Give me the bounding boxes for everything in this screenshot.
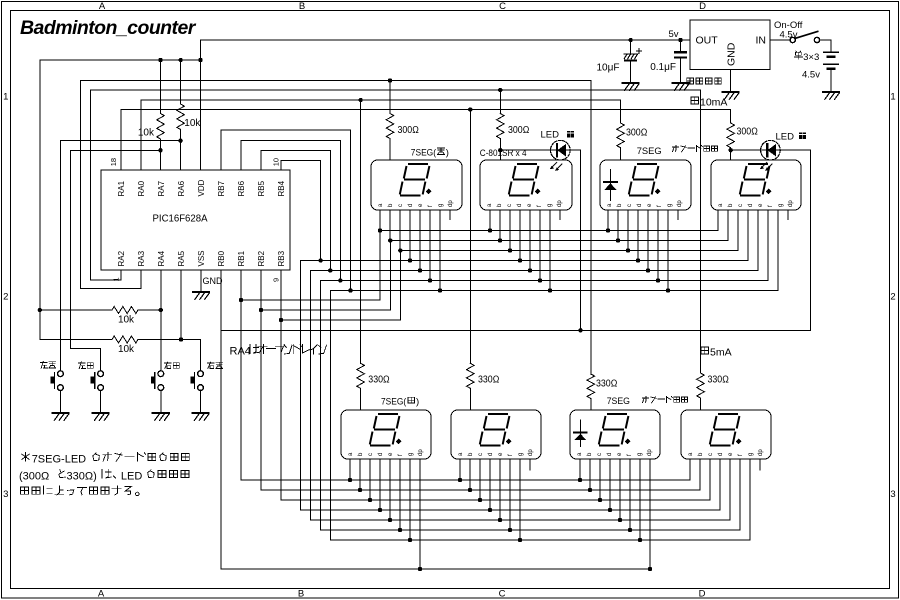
svg-text:dp: dp	[528, 449, 534, 456]
svg-text:LED: LED	[776, 132, 795, 143]
net segment bus a	[378, 210, 718, 233]
svg-text:D: D	[699, 1, 706, 12]
net LED return bus y330	[221, 328, 811, 332]
net segment bus c	[398, 210, 738, 253]
wire rail1 drop to 330ohm R13	[590, 81, 592, 375]
wire LED D1 cathode down to LED bus	[570, 150, 580, 330]
label battery 単3×3	[794, 51, 819, 63]
label SW2 左増	[78, 362, 93, 369]
svg-text:RA7: RA7	[157, 180, 166, 196]
svg-text:): )	[446, 148, 449, 159]
net bottom bus d	[301, 459, 721, 512]
svg-text:1: 1	[3, 92, 8, 103]
display DS2 7SEG red digit2	[480, 160, 572, 210]
wires DS3 pins to buses	[608, 210, 678, 291]
svg-text:A: A	[99, 1, 106, 12]
wire RB4 to segment bus d	[281, 161, 321, 261]
svg-text:PIC16F628A: PIC16F628A	[153, 214, 208, 225]
svg-text:GND: GND	[203, 276, 224, 286]
net bottom bus e	[311, 459, 731, 522]
svg-text:d: d	[607, 453, 613, 456]
display DS4 7SEG red digit4	[711, 160, 801, 210]
ground below regulator	[722, 92, 739, 99]
regulator U1 boost converter box	[690, 20, 770, 70]
svg-text:LED: LED	[121, 470, 142, 482]
switch SW1 left-minus	[51, 371, 64, 413]
label green kanji	[408, 397, 414, 403]
svg-text:330Ω: 330Ω	[368, 375, 390, 386]
svg-text:330Ω): 330Ω)	[67, 470, 97, 482]
svg-text:g: g	[518, 453, 524, 456]
svg-text:d: d	[637, 204, 643, 207]
svg-text:B: B	[299, 1, 305, 12]
note line1 7SEG-LED cathode resistor	[22, 452, 190, 465]
svg-text:5mA: 5mA	[710, 347, 732, 359]
svg-text:7SEG-LED: 7SEG-LED	[32, 453, 86, 465]
label cathode common top カソード共通	[672, 145, 717, 151]
display DS7 7SEG green digit3	[570, 410, 660, 459]
wire VDD pin to 5V rail	[198, 40, 202, 170]
svg-text:7SEG(: 7SEG(	[411, 148, 437, 159]
label SW1 左減	[40, 361, 55, 368]
svg-text:g: g	[637, 453, 643, 456]
svg-text:0.1μF: 0.1μF	[650, 62, 676, 73]
svg-text:18: 18	[109, 158, 118, 166]
svg-text:g: g	[667, 204, 673, 207]
resistor R14 330ohm bottom digit4	[697, 373, 730, 410]
svg-text:RB1: RB1	[237, 250, 246, 266]
svg-text:4.5v: 4.5v	[802, 70, 820, 81]
label approx 10mA 約10mA	[691, 97, 727, 109]
wires DS5 pins to buses	[350, 459, 420, 569]
svg-text:OUT: OUT	[696, 35, 719, 47]
net segment bus b	[388, 210, 728, 243]
wire RB3 branch to bus c	[281, 251, 400, 321]
wire RB1 column	[239, 270, 243, 480]
svg-text:RA2: RA2	[117, 250, 126, 266]
IC U2 PIC16F628A	[101, 170, 290, 270]
svg-text:3: 3	[3, 489, 8, 500]
wire bus f drop	[320, 281, 322, 531]
diode inside DS7	[574, 420, 587, 447]
net bottom bus c	[281, 459, 710, 502]
wire rail3 drop to 300ohm R11	[620, 100, 622, 123]
svg-text:c: c	[627, 204, 633, 207]
switch SW5 On-Off	[790, 31, 820, 42]
wire RB6 to segment bus f	[241, 140, 340, 280]
ground below SW4	[192, 413, 209, 420]
resistor R13 330ohm bottom digit3	[587, 374, 618, 410]
svg-text:RB7: RB7	[217, 180, 226, 196]
wire RB2 column	[259, 270, 263, 490]
wire SW2 column with jog	[71, 150, 101, 370]
wire bus d drop	[300, 261, 302, 511]
net rail1 digit select y80	[80, 78, 590, 82]
svg-text:300Ω: 300Ω	[626, 128, 648, 139]
wire 300ohm R12 node to LED D2	[729, 148, 761, 160]
svg-text:dp: dp	[418, 449, 424, 456]
svg-text:RA0: RA0	[137, 180, 146, 196]
wire 10k to SW4	[200, 340, 202, 371]
wires DS7 pins to buses	[580, 459, 650, 569]
wire rail4 drop to 300ohm R12	[730, 110, 732, 124]
wire RA5 to 10k	[180, 270, 182, 340]
wire rail2 drop to 330ohm R14	[700, 90, 702, 373]
wire RB0 to dp line	[221, 270, 652, 571]
label boost circuit 昇圧回路	[687, 78, 722, 84]
svg-text:10k: 10k	[138, 127, 155, 138]
svg-text:): )	[416, 397, 419, 408]
label cathode common bottom カソード共通	[642, 396, 687, 402]
ground below SW3	[153, 413, 170, 420]
diode inside DS3	[604, 169, 617, 200]
ground below C2	[672, 83, 689, 90]
svg-text:300Ω: 300Ω	[398, 125, 420, 136]
resistor R10 300ohm digit2 red	[497, 90, 530, 160]
label SW4 右減	[207, 362, 222, 369]
svg-text:330Ω: 330Ω	[596, 379, 618, 390]
svg-text:D: D	[699, 589, 706, 600]
wire battery to ground	[830, 70, 832, 92]
svg-text:c: c	[597, 453, 603, 456]
svg-text:9: 9	[272, 278, 281, 282]
net segment bus e	[311, 210, 759, 273]
display DS3 7SEG red digit3	[600, 160, 691, 210]
svg-text:VSS: VSS	[197, 250, 206, 266]
resistor R4 10k horizontal RA5	[40, 336, 201, 355]
wire bus e drop	[310, 271, 312, 521]
svg-text:dp: dp	[647, 449, 653, 456]
svg-text:g: g	[778, 204, 784, 207]
svg-text:RA1: RA1	[117, 180, 126, 196]
svg-text:RA6: RA6	[177, 180, 186, 196]
label SW3 右増	[164, 362, 179, 369]
svg-text:g: g	[408, 453, 414, 456]
svg-text:g: g	[748, 453, 754, 456]
wire bus g drop	[329, 291, 331, 541]
LED D2 yellow indicator right	[760, 140, 780, 170]
switch SW4 right-minus	[191, 371, 204, 413]
wire RB1 branch to bus a	[241, 231, 380, 301]
wire RA3 around left to rail1	[80, 81, 141, 289]
wire 5V drop x40 to pullup resistors	[38, 60, 42, 340]
svg-text:1: 1	[890, 92, 895, 103]
svg-text:5v: 5v	[668, 29, 678, 40]
svg-text:dp: dp	[677, 200, 683, 207]
note RA4 is open drain	[230, 344, 327, 357]
resistor R9 300ohm digit1 red	[386, 81, 419, 161]
ground below VSS	[193, 292, 210, 299]
svg-text:A: A	[98, 589, 105, 600]
wire VSS to ground	[200, 270, 202, 292]
svg-text:2: 2	[890, 292, 895, 303]
resistor R11 300ohm digit3 red	[617, 123, 648, 160]
net bottom bus f	[321, 459, 741, 532]
svg-text:7SEG(: 7SEG(	[381, 397, 407, 408]
svg-text:3: 3	[890, 489, 895, 500]
svg-text:RB5: RB5	[257, 180, 266, 196]
ground below battery	[823, 92, 840, 99]
svg-text:d: d	[408, 204, 414, 207]
svg-text:RA5: RA5	[177, 250, 186, 266]
svg-text:3×3: 3×3	[803, 52, 819, 63]
svg-text:d: d	[378, 453, 384, 456]
svg-text:RA4: RA4	[157, 250, 166, 266]
svg-text:2: 2	[3, 292, 8, 303]
svg-text:d: d	[718, 453, 724, 456]
capacitor C2 0.1uF	[674, 40, 687, 83]
svg-text:c: c	[398, 204, 404, 207]
svg-text:c: c	[708, 453, 714, 456]
resistor R16 330ohm bottom digit2	[467, 110, 500, 411]
svg-text:RA3: RA3	[137, 250, 146, 266]
svg-text:c: c	[507, 204, 513, 207]
display DS1 7SEG red digit1	[371, 160, 462, 210]
svg-text:(300Ω: (300Ω	[19, 470, 49, 482]
display DS5 7SEG green digit1	[341, 410, 431, 459]
wire RB3 column	[279, 270, 283, 500]
display DS8 7SEG green digit4	[681, 410, 771, 459]
svg-text:RB0: RB0	[217, 250, 226, 266]
wire RB2 branch to bus b	[261, 241, 390, 311]
wire RA6 node to switch column	[60, 139, 182, 171]
svg-text:B: B	[298, 589, 304, 600]
svg-text:10k: 10k	[118, 344, 135, 355]
battery BT1 4.5V	[823, 51, 839, 70]
wire SW1 column	[59, 141, 61, 371]
svg-text:RB4: RB4	[277, 180, 286, 196]
svg-text:7SEG: 7SEG	[607, 396, 630, 407]
capacitor C1 10uF electrolytic	[624, 40, 641, 83]
svg-text:d: d	[517, 204, 523, 207]
svg-text:10mA: 10mA	[700, 97, 727, 109]
resistor R2 10k pullup RA6	[177, 60, 202, 141]
svg-text:d: d	[748, 204, 754, 207]
svg-text:dp: dp	[758, 449, 764, 456]
svg-text:c: c	[738, 204, 744, 207]
label yellow 黄 (left)	[567, 131, 575, 138]
wire RA2 around left to rail2	[90, 90, 121, 280]
svg-text:VDD: VDD	[197, 179, 206, 196]
ground below C1	[622, 83, 639, 90]
svg-text:C-801SR x 4: C-801SR x 4	[480, 148, 527, 159]
net rail3 digit select y100	[141, 98, 621, 102]
svg-text:dp: dp	[788, 200, 794, 207]
wire RB5 to segment bus e	[261, 150, 330, 270]
svg-text:300Ω: 300Ω	[508, 125, 530, 136]
wires DS6 pins to buses	[460, 459, 530, 540]
svg-text:300Ω: 300Ω	[737, 127, 759, 138]
svg-text:IN: IN	[756, 35, 767, 47]
svg-text:LED: LED	[541, 130, 560, 141]
net rail2 digit select y90	[90, 88, 700, 92]
svg-text:Badminton_counter: Badminton_counter	[20, 17, 197, 39]
svg-text:C: C	[499, 1, 506, 12]
svg-text:C: C	[499, 589, 506, 600]
net rail4 digit select y109	[121, 107, 731, 111]
svg-text:10μF: 10μF	[597, 63, 620, 74]
svg-text:330Ω: 330Ω	[708, 375, 730, 386]
wire LED D2 cathode down to LED bus	[780, 150, 810, 330]
svg-text:330Ω: 330Ω	[478, 375, 500, 386]
svg-text:10: 10	[272, 158, 281, 166]
svg-text:g: g	[438, 204, 444, 207]
wire 5V branch y60	[40, 58, 201, 62]
wire RA7 node to switch column	[71, 148, 163, 170]
svg-text:10k: 10k	[184, 118, 201, 129]
svg-text:dp: dp	[448, 200, 454, 207]
svg-text:7SEG: 7SEG	[637, 146, 662, 157]
net bottom bus b	[261, 459, 700, 492]
note line2 300 330 ohm LED forward	[19, 469, 189, 482]
svg-text:RB2: RB2	[257, 250, 266, 266]
net bottom bus g	[330, 459, 750, 542]
resistor R12 300ohm digit4 red	[727, 123, 758, 160]
svg-text:g: g	[547, 204, 553, 207]
svg-text:GND: GND	[726, 42, 738, 66]
svg-text:RB6: RB6	[237, 180, 246, 196]
switch SW3 right-plus	[151, 371, 164, 413]
net segment bus d	[301, 210, 749, 263]
switch SW2 left-plus	[91, 371, 104, 413]
net segment bus g	[330, 210, 778, 293]
svg-text:10k: 10k	[118, 315, 135, 326]
svg-text:dp: dp	[557, 200, 563, 207]
svg-text:RB3: RB3	[277, 250, 286, 266]
svg-text:c: c	[478, 453, 484, 456]
wire regulator GND to ground	[730, 70, 732, 92]
wire RA4 to SW3	[159, 270, 163, 371]
label yellow 黄 (right)	[799, 132, 807, 139]
wire 300ohm R10 node to LED D1	[498, 139, 550, 161]
ground below SW2	[92, 413, 109, 420]
label red kanji	[437, 148, 444, 155]
resistor R15 330ohm bottom digit1	[357, 100, 390, 410]
note approx 5mA 約5mA	[701, 347, 732, 359]
wires DS1 pins to buses	[380, 210, 450, 291]
wire regulator IN to switch	[770, 39, 790, 41]
wire switch to battery	[820, 40, 831, 51]
LED D1 yellow indicator left	[550, 140, 570, 170]
wire RA0 to rail3	[140, 100, 142, 170]
ground below SW1	[52, 413, 68, 420]
net bottom bus a	[241, 459, 690, 482]
wire RA1 to rail4	[120, 110, 122, 171]
svg-text:4.5v: 4.5v	[780, 29, 798, 40]
wire 5V rail from VDD to regulator OUT	[201, 38, 691, 42]
svg-text:c: c	[368, 453, 374, 456]
wires DS8 dp stub	[759, 459, 761, 470]
wires DS4 dp stub	[787, 210, 789, 220]
resistor R1 10k pullup RA7	[138, 60, 164, 150]
display DS6 7SEG green digit2	[451, 410, 541, 459]
svg-text:d: d	[488, 453, 494, 456]
resistor R3 10k horizontal RA4	[40, 307, 161, 326]
net segment bus f	[321, 210, 769, 283]
svg-text:RA4: RA4	[230, 346, 251, 358]
note line3 voltage change	[21, 486, 140, 496]
wire RB7 to segment bus g	[221, 130, 351, 291]
wires DS2 pins to buses	[490, 210, 560, 291]
